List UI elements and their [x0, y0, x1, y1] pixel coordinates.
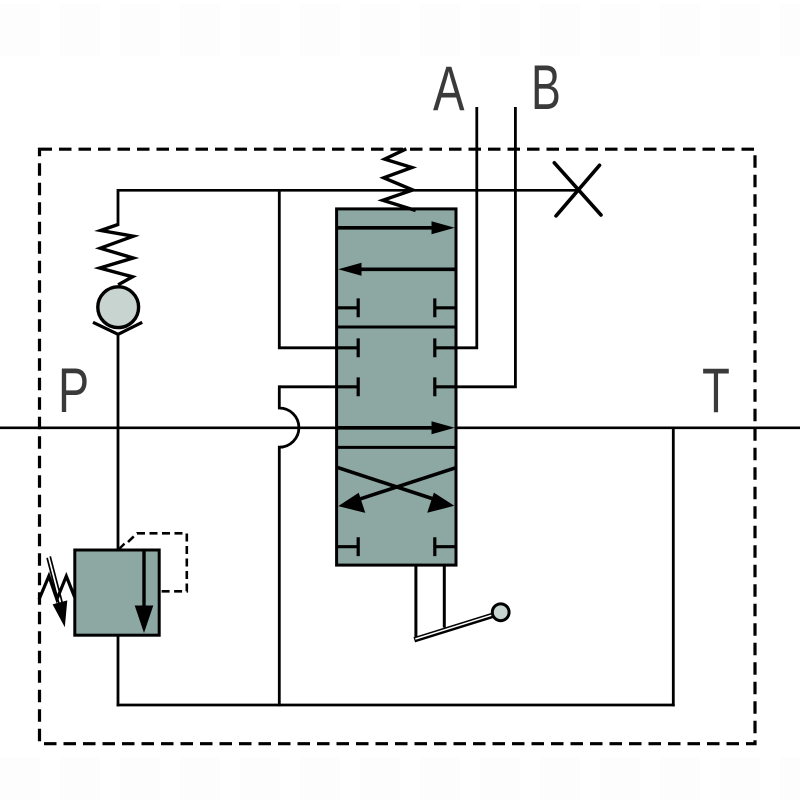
svg-text:T: T	[702, 355, 730, 426]
svg-text:B: B	[531, 52, 561, 122]
svg-text:A: A	[433, 53, 465, 123]
svg-text:P: P	[58, 355, 89, 425]
